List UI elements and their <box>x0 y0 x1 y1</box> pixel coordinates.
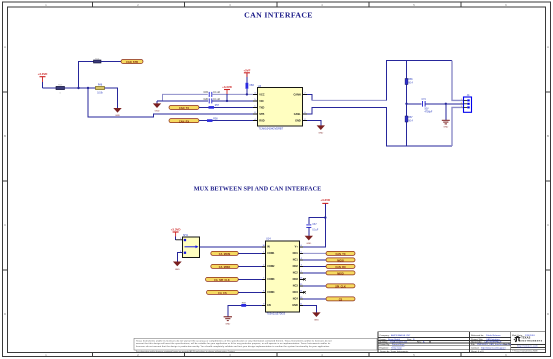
svg-text:GND: GND <box>318 133 323 135</box>
svg-text:A: A <box>4 45 6 49</box>
svg-text:B: B <box>4 134 6 138</box>
title block right cell / mod date <box>512 334 536 337</box>
svg-text:GND: GND <box>443 127 448 129</box>
wire decap common <box>157 94 208 101</box>
wire C15 to VCC pin <box>212 93 253 95</box>
svg-text:RXD: RXD <box>259 120 264 123</box>
U3 left pin numbers <box>254 93 256 121</box>
wire R57 to TXD pin <box>214 106 253 108</box>
wire NO2 to port <box>303 265 326 267</box>
svg-text:GND: GND <box>295 120 301 123</box>
svg-text:C20: C20 <box>204 98 209 101</box>
svg-text:Temp Corp: Temp Corp <box>391 347 402 350</box>
wire up branch to R16 <box>79 62 94 89</box>
svg-text:FB3: FB3 <box>250 85 255 87</box>
title block text middle cell <box>471 334 513 350</box>
svg-text:10.0k: 10.0k <box>97 93 103 95</box>
port CAN_TX <box>169 105 199 110</box>
svg-text:CANH: CANH <box>293 93 300 96</box>
U3 right pin numbers <box>304 93 306 121</box>
svg-text:Forrest Hays: Forrest Hays <box>392 343 405 346</box>
wire R58 to RXD pin <box>213 120 253 122</box>
svg-text:Project Title:: Project Title: <box>471 338 483 341</box>
connector J4 <box>461 94 472 113</box>
svg-text:+5VF: +5VF <box>243 68 250 72</box>
svg-text:STB: STB <box>259 113 264 116</box>
port CA_SPI_CLK <box>206 277 239 282</box>
wire P4 to SH1 pin1 <box>176 239 183 241</box>
wire termination center vertical <box>406 61 408 146</box>
svg-text:NO2: NO2 <box>293 265 299 268</box>
svg-text:Rev:: Rev: <box>417 342 422 344</box>
svg-text:R66: R66 <box>408 79 413 81</box>
svg-text:TXD: TXD <box>259 106 264 109</box>
svg-text:GND: GND <box>314 320 319 322</box>
wire mid to cap <box>407 103 422 105</box>
ground G7 <box>305 236 313 245</box>
wire CA_SPI_CLK <box>238 278 262 280</box>
U14 right pin stubs <box>300 247 306 306</box>
svg-text:D: D <box>4 312 6 316</box>
wire CA_MOSI <box>238 252 262 254</box>
svg-text:0.1 uF: 0.1 uF <box>213 91 220 94</box>
Texas Instruments logo <box>512 336 543 352</box>
svg-text:AMP9 RANGE CNT: AMP9 RANGE CNT <box>391 334 411 337</box>
port SPI_CLK <box>326 284 355 289</box>
wire VIO decap branch <box>157 100 208 102</box>
capacitor C67 <box>306 224 319 232</box>
svg-text:CANL: CANL <box>294 113 301 116</box>
svg-text:NO1: NO1 <box>293 252 299 255</box>
junction VCC <box>246 93 248 95</box>
svg-text:GND: GND <box>155 111 160 113</box>
resistor R68 <box>241 302 246 306</box>
U14 left pin stubs <box>262 247 265 306</box>
svg-text:V+: V+ <box>295 246 299 249</box>
svg-text:Contact:: Contact: <box>471 347 480 350</box>
port CAN_RX out <box>326 264 355 269</box>
svg-text:GND: GND <box>225 323 230 325</box>
resistor R66 <box>405 79 413 85</box>
svg-text:B: B <box>547 134 549 138</box>
svg-text:NO3: NO3 <box>293 278 299 281</box>
svg-text:60.4: 60.4 <box>408 82 413 84</box>
svg-text:SH1: SH1 <box>183 234 188 237</box>
wire cap to connector <box>425 103 463 105</box>
power +3.3VD P1 <box>38 72 48 88</box>
svg-text:File:: File: <box>471 344 476 346</box>
op-amp U3 CAN transceiver <box>258 85 303 130</box>
svg-text:MOSI: MOSI <box>337 260 344 263</box>
wire U3 gnd pin <box>307 121 321 126</box>
svg-text:3: 3 <box>461 106 462 108</box>
svg-text:VCC: VCC <box>259 93 264 96</box>
svg-text:A: A <box>547 45 549 49</box>
power +3.3VD P4 <box>171 228 181 240</box>
svg-text:http://www.ti.com: http://www.ti.com <box>517 345 538 348</box>
svg-text:Public Release: Public Release <box>486 335 501 337</box>
power +3.3VD P2 <box>222 85 232 101</box>
svg-text:CAN INTERFACE: CAN INTERFACE <box>484 341 502 344</box>
svg-text:CA_CS: CA_CS <box>218 292 227 295</box>
title block text left cell <box>380 334 426 350</box>
capacitor C20 <box>204 98 221 104</box>
resistor R58 <box>207 118 218 122</box>
power +5VF P3 <box>243 68 250 77</box>
svg-text:CAN_STB: CAN_STB <box>126 61 138 64</box>
resistor R16 <box>94 58 102 63</box>
junction B <box>87 87 89 89</box>
svg-text:COM2: COM2 <box>267 265 275 268</box>
svg-text:50V: 50V <box>425 108 430 110</box>
port CAN_STB <box>121 59 143 64</box>
port CAN_RX <box>169 119 199 124</box>
wire STB run <box>88 88 253 117</box>
junction termination mid <box>405 103 407 105</box>
title block bottom row <box>380 350 484 353</box>
wire NC3 to port <box>303 285 326 287</box>
ground G2 (decoupling common) <box>153 101 161 113</box>
svg-text:COM4: COM4 <box>267 291 275 294</box>
svg-text:NC1: NC1 <box>293 259 299 262</box>
wire R16 to port <box>101 61 121 63</box>
wire from P1 to R17 <box>43 87 57 89</box>
U3 right pin stubs <box>303 94 308 120</box>
wire U14 gnd pin <box>303 305 317 312</box>
wire R17 to junction node <box>65 87 96 89</box>
wire NC1 to port <box>303 259 326 261</box>
svg-text:CA_MISO: CA_MISO <box>219 266 230 269</box>
svg-text:CAN_RX: CAN_RX <box>179 120 190 123</box>
svg-text:NO4: NO4 <box>293 291 299 294</box>
capacitor C74 <box>422 99 433 113</box>
svg-text:TIDA-010000-001: TIDA-010000-001 <box>390 341 408 344</box>
port CAN_TX out <box>326 251 355 256</box>
power +3.3VD P5 <box>320 198 330 203</box>
wire CA_CS <box>238 291 262 293</box>
svg-text:NC4: NC4 <box>293 298 299 301</box>
svg-text:Number:: Number: <box>380 341 389 344</box>
wire C20 to VIO pin <box>212 100 253 102</box>
U3 left pin stubs <box>253 94 258 120</box>
svg-text:NC3: NC3 <box>293 285 299 288</box>
svg-text:Sheet: 5 of 9: Sheet: 5 of 9 <box>471 350 484 353</box>
svg-text:VIO: VIO <box>259 100 263 103</box>
wire NC2 to port <box>303 272 326 274</box>
svg-text:+3.3VD: +3.3VD <box>320 198 330 202</box>
resistor R57 <box>209 105 220 109</box>
switch SH1 <box>180 234 199 258</box>
wire EN to gnd <box>228 305 262 316</box>
svg-text:C15: C15 <box>204 91 209 94</box>
svg-text:Texas Instruments and/or its l: Texas Instruments and/or its licensors d… <box>136 339 332 342</box>
wire V+ branch to C67 <box>309 218 326 224</box>
svg-text:licensors do not warrant that: licensors do not warrant that the design… <box>136 345 330 348</box>
wire NO1 to port <box>303 252 326 254</box>
resistor R67 <box>405 116 413 122</box>
svg-text:U14: U14 <box>266 238 271 241</box>
svg-text:CS: CS <box>339 299 343 302</box>
svg-text:+3.3VD: +3.3VD <box>222 85 232 89</box>
svg-text:Company:: Company: <box>380 335 390 337</box>
U14 right pin numbers <box>300 245 303 306</box>
svg-text:Drawn by: Texas Instruments: Drawn by: Texas Instruments <box>380 350 409 353</box>
ferrite bead FB3 <box>246 73 255 94</box>
svg-text:CA_SPI_CLK: CA_SPI_CLK <box>214 279 230 282</box>
svg-text:COM1: COM1 <box>267 252 275 255</box>
svg-text:CAN Interface: CAN Interface <box>486 338 501 341</box>
wire V+ to power <box>303 203 325 247</box>
svg-text:http://www.ti.com/support: http://www.ti.com/support <box>481 347 506 350</box>
resistor R46 <box>96 85 105 95</box>
svg-text:0.1 uF: 0.1 uF <box>213 98 220 101</box>
ground G6 <box>224 317 232 326</box>
resistor R17 (DNP) <box>56 85 65 95</box>
svg-text:INSTRUMENTS: INSTRUMENTS <box>521 340 542 342</box>
svg-text:C74: C74 <box>422 99 427 101</box>
svg-text:TEXAS: TEXAS <box>521 336 530 339</box>
svg-text:GND: GND <box>175 269 180 271</box>
svg-text:R46: R46 <box>98 85 103 87</box>
wire CANL <box>307 107 452 146</box>
svg-text:Size: B: Size: B <box>503 344 510 346</box>
svg-text:4700pF: 4700pF <box>425 111 433 113</box>
svg-text:C67: C67 <box>312 224 317 226</box>
wire C67 to gnd <box>308 227 310 235</box>
svg-text:60.4: 60.4 <box>408 120 413 122</box>
wire termination right edge bottom <box>452 107 464 146</box>
svg-text:1: 1 <box>461 99 462 101</box>
junction VIO <box>226 100 228 102</box>
junction cap gnd <box>445 103 447 105</box>
ground G5 <box>173 262 182 271</box>
svg-text:COM3: COM3 <box>267 278 275 281</box>
svg-text:Drawn By:: Drawn By: <box>380 343 390 346</box>
svg-text:MISO: MISO <box>337 273 343 276</box>
svg-text:CAN_TX: CAN_TX <box>179 107 189 110</box>
svg-text:NC2: NC2 <box>293 272 299 275</box>
svg-text:warrant that this design will: warrant that this design will meet the s… <box>136 342 330 345</box>
svg-text:TS5A23157DGS: TS5A23157DGS <box>267 313 286 316</box>
wire CAN_TX to R57 <box>199 106 209 108</box>
ground G8 <box>312 312 320 321</box>
ground G3 <box>442 104 450 129</box>
svg-text:0.1uF: 0.1uF <box>312 230 318 232</box>
svg-text:Released for:: Released for: <box>471 334 484 337</box>
svg-text:EN: EN <box>267 304 271 307</box>
U14 left pin numbers <box>263 245 266 306</box>
svg-text:The information and/or drawing: The information and/or drawings containe… <box>136 350 236 353</box>
svg-text:Size:: Size: <box>407 339 412 341</box>
svg-text:D: D <box>547 312 549 316</box>
svg-text:CA_MOSI: CA_MOSI <box>219 253 231 256</box>
junction A <box>77 87 79 89</box>
svg-text:Bryan Bedal: Bryan Bedal <box>388 338 400 341</box>
svg-text:SPI_CLK: SPI_CLK <box>335 286 346 289</box>
svg-text:GND: GND <box>292 304 298 307</box>
svg-text:+3.3VD: +3.3VD <box>171 228 181 232</box>
capacitor C15 <box>204 91 221 97</box>
svg-text:C: C <box>547 223 549 227</box>
svg-text:CAN INTERFACE: CAN INTERFACE <box>244 11 313 20</box>
svg-text:R57: R57 <box>215 105 220 107</box>
wire R46 to gnd corner <box>105 88 118 108</box>
wire SH1 pin2 to gnd <box>177 253 182 262</box>
wire termination right edge top <box>452 61 464 101</box>
wire CANH <box>307 94 312 100</box>
port CA_MOSI <box>211 251 239 256</box>
port CS <box>326 297 355 302</box>
svg-text:C: C <box>4 223 6 227</box>
port CA_CS <box>207 290 239 295</box>
svg-text:GND: GND <box>306 243 311 245</box>
svg-text:2: 2 <box>461 102 462 104</box>
wire SH1 out to U14 IN <box>200 246 263 248</box>
disclaimer note box <box>134 338 377 350</box>
svg-text:IN: IN <box>267 246 270 249</box>
svg-text:CAN_RX: CAN_RX <box>335 266 346 269</box>
svg-text:CAN_TX: CAN_TX <box>335 253 345 256</box>
port MISO <box>326 271 355 276</box>
svg-text:Engineer:: Engineer: <box>380 347 390 350</box>
svg-text:Sheet Title:: Sheet Title: <box>471 341 482 344</box>
wire CA_MISO <box>238 265 262 267</box>
svg-text:R58: R58 <box>213 118 218 120</box>
svg-text:R67: R67 <box>408 117 413 119</box>
svg-text:+3.3VD: +3.3VD <box>38 72 48 76</box>
svg-text:MUX BETWEEN SPI AND CAN INTERF: MUX BETWEEN SPI AND CAN INTERFACE <box>194 186 322 193</box>
wire CAN_RX to R58 <box>199 120 207 122</box>
svg-text:Drawn:: Drawn: <box>380 338 387 341</box>
wire NC4 to port <box>303 298 326 300</box>
port MOSI <box>326 258 355 263</box>
ground G1 <box>113 108 121 117</box>
multiplexer U14 <box>266 238 300 316</box>
svg-text:TCAN1042HGVDRBT: TCAN1042HGVDRBT <box>259 127 284 130</box>
port CA_MISO <box>211 264 239 269</box>
svg-text:© Texas Instruments 2018: © Texas Instruments 2018 <box>512 350 538 353</box>
junction V+ branch <box>324 216 326 218</box>
ground G4 <box>317 125 325 134</box>
